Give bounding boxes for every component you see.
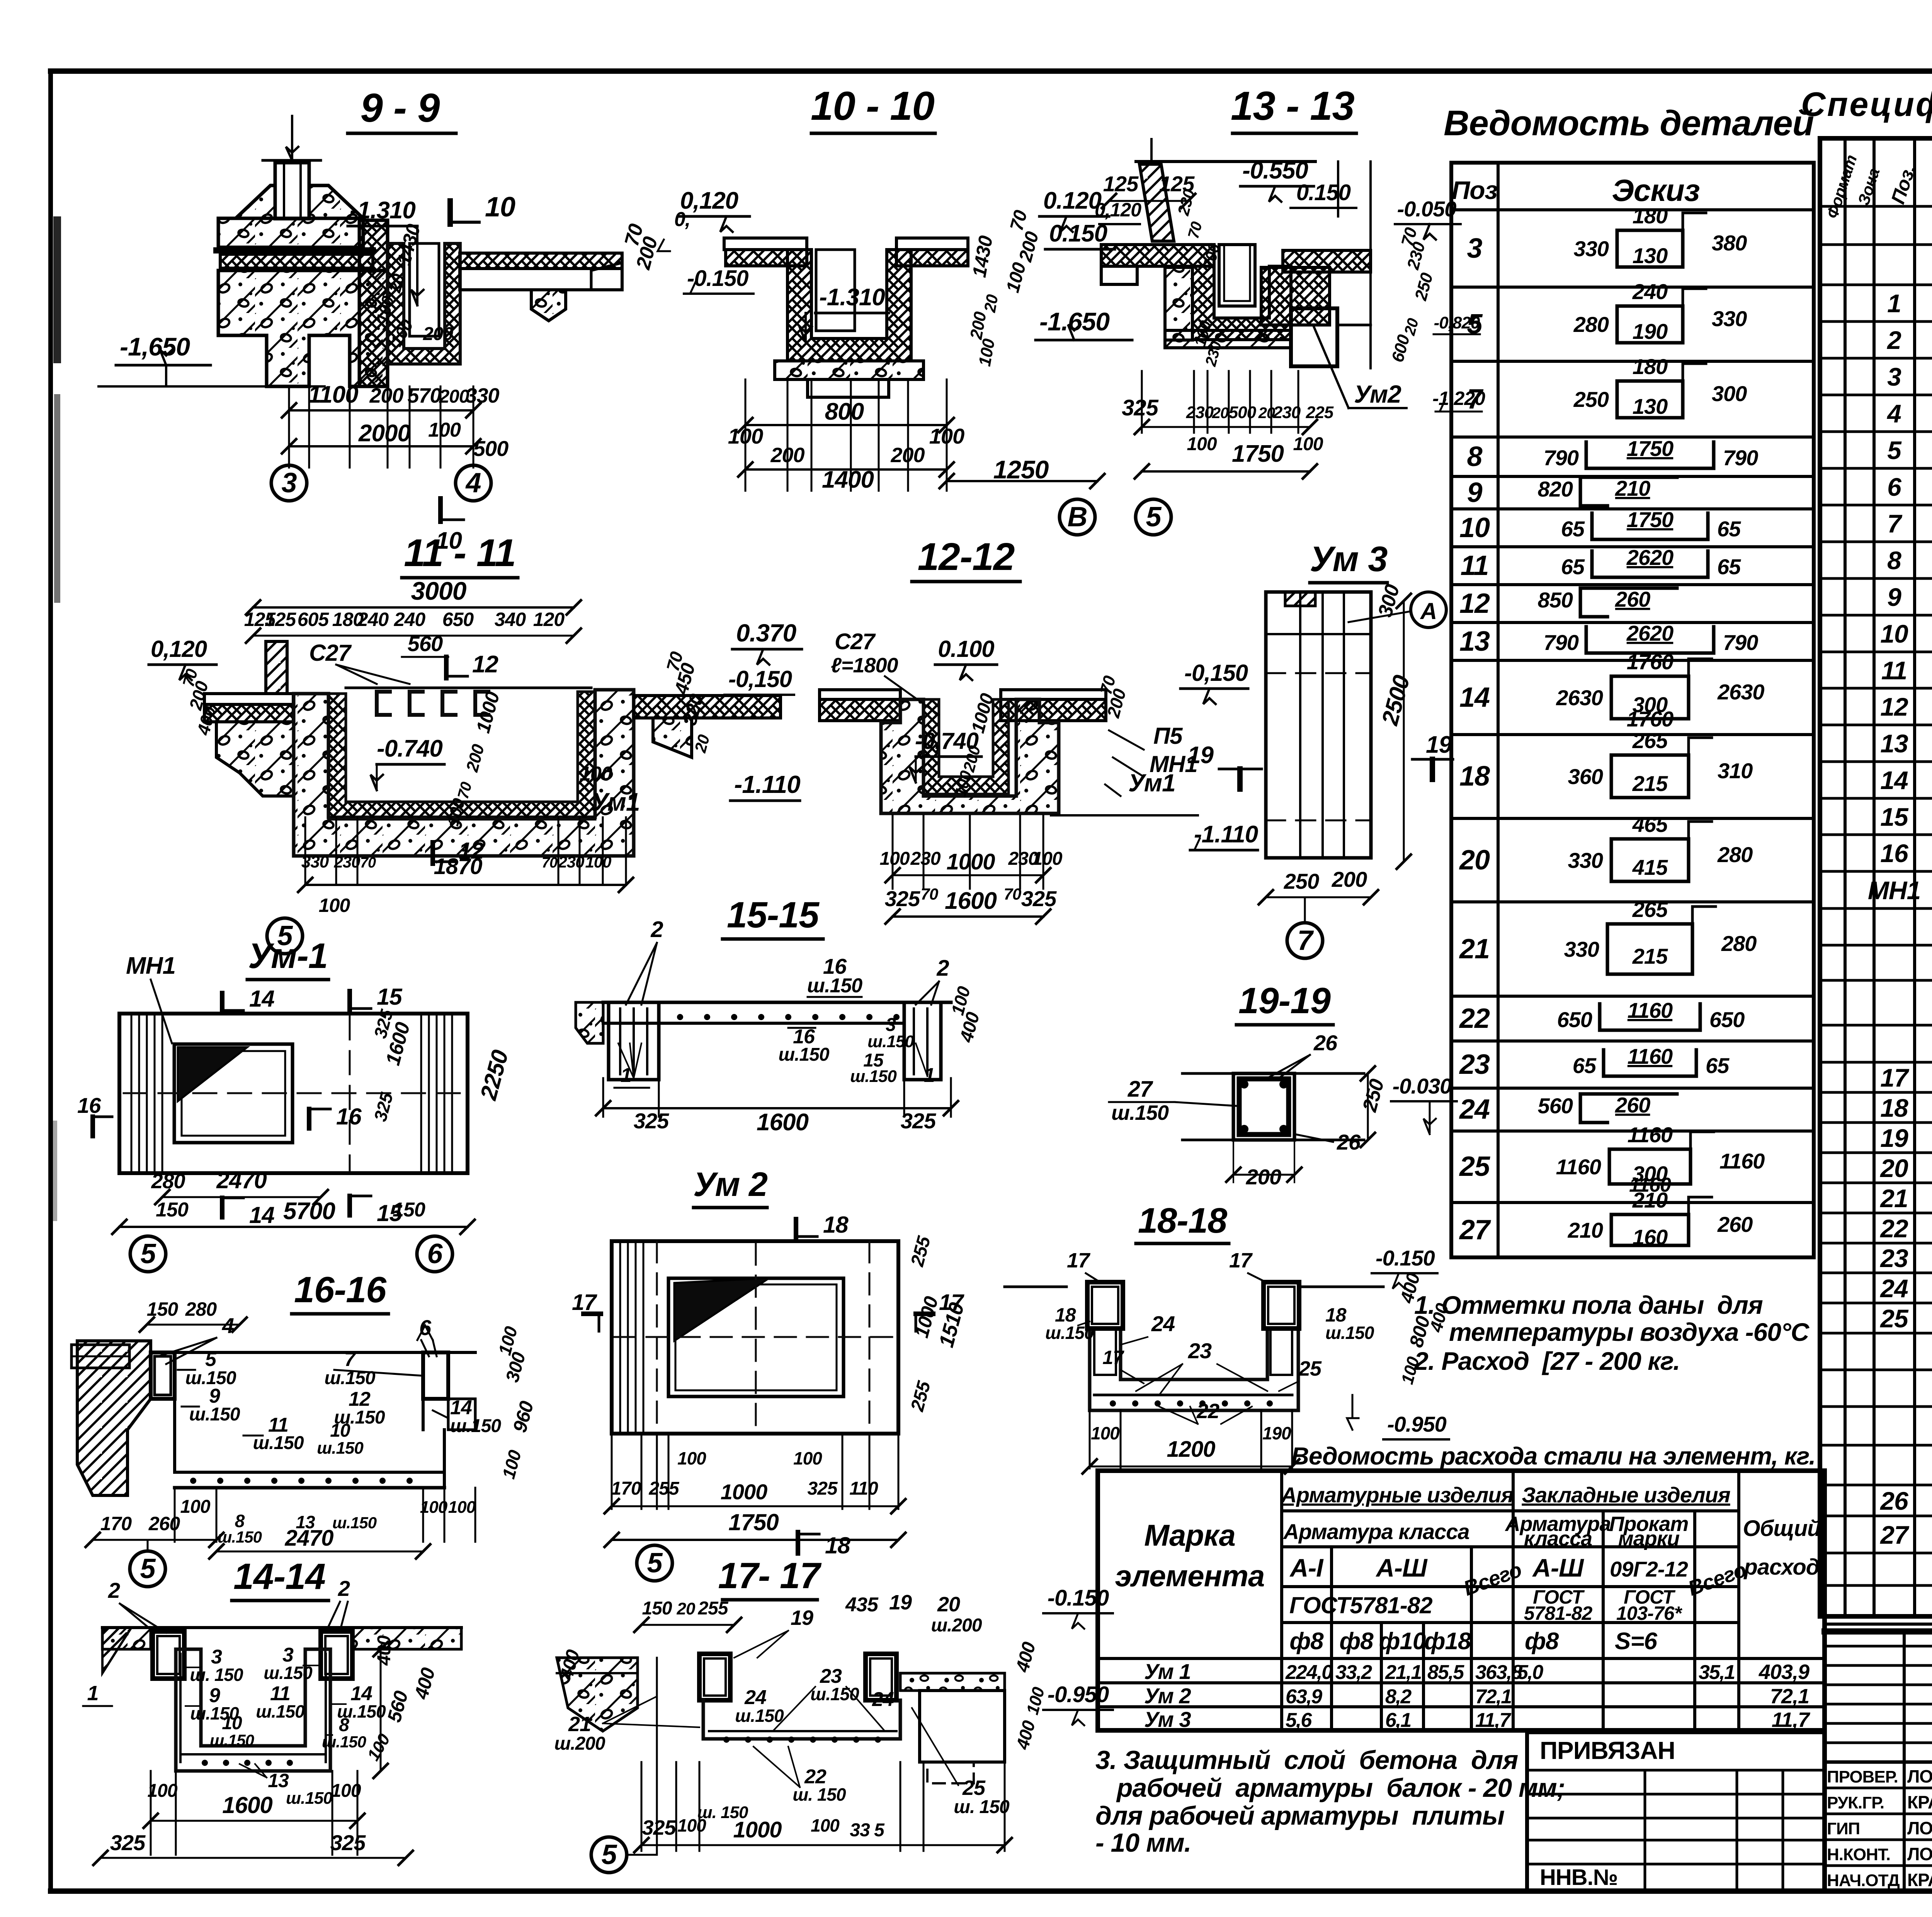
svg-text:-0,150: -0,150 xyxy=(1184,660,1248,686)
svg-text:4: 4 xyxy=(1886,399,1901,428)
svg-text:0.120: 0.120 xyxy=(1043,187,1102,214)
svg-text:650: 650 xyxy=(1557,1007,1592,1032)
11-11 left block xyxy=(216,722,294,796)
svg-text:6: 6 xyxy=(1887,473,1902,501)
svg-text:325: 325 xyxy=(110,1830,146,1855)
svg-text:850: 850 xyxy=(1538,588,1573,612)
svg-text:4: 4 xyxy=(465,468,481,498)
svg-text:2: 2 xyxy=(338,1576,350,1601)
svg-text:3: 3 xyxy=(1467,233,1482,264)
axis 16-16 xyxy=(130,1551,165,1587)
11-11 left slab xyxy=(204,694,293,704)
svg-text:325: 325 xyxy=(901,1109,936,1133)
svg-text:170: 170 xyxy=(611,1478,641,1499)
svg-text:415: 415 xyxy=(1632,855,1668,879)
svg-text:Формат: Формат xyxy=(1823,153,1860,221)
svg-text:-0.050: -0.050 xyxy=(1397,197,1457,221)
12-12 slabs xyxy=(820,690,900,699)
privyazan box xyxy=(1527,1732,1825,1890)
svg-text:7: 7 xyxy=(1887,509,1903,538)
sketch row 18 xyxy=(1611,755,1689,798)
svg-text:16: 16 xyxy=(77,1093,101,1118)
svg-text:200: 200 xyxy=(423,324,453,344)
svg-text:Марка: Марка xyxy=(1144,1518,1235,1552)
svg-text:14: 14 xyxy=(1880,766,1908,794)
svg-text:100: 100 xyxy=(448,1498,476,1517)
svg-text:100: 100 xyxy=(428,419,461,441)
svg-text:1. Отметки пола даны для: 1. Отметки пола даны для xyxy=(1414,1291,1763,1319)
svg-text:200: 200 xyxy=(369,384,403,407)
sketch row 12 xyxy=(1580,588,1607,617)
11-11 bottom dims xyxy=(304,817,306,885)
svg-text:12: 12 xyxy=(472,651,498,678)
svg-text:100: 100 xyxy=(580,763,612,785)
svg-text:22: 22 xyxy=(1459,1003,1490,1034)
svg-text:-0.950: -0.950 xyxy=(1387,1412,1447,1436)
svg-text:260: 260 xyxy=(1615,1093,1650,1117)
svg-text:14-14: 14-14 xyxy=(233,1556,325,1597)
svg-text:13: 13 xyxy=(1880,729,1908,758)
svg-text:1100: 1100 xyxy=(308,381,358,408)
lower block 9-9 xyxy=(218,270,388,386)
svg-text:70: 70 xyxy=(360,855,376,871)
svg-text:1750: 1750 xyxy=(728,1509,779,1535)
sketch row 11 xyxy=(1592,551,1609,577)
svg-text:Закладные изделия: Закладные изделия xyxy=(1522,1483,1730,1507)
svg-text:65: 65 xyxy=(1561,517,1585,541)
svg-text:15: 15 xyxy=(377,984,403,1010)
axis circles 9-9 xyxy=(271,465,307,501)
svg-text:12: 12 xyxy=(1880,692,1908,721)
svg-text:Ум 2: Ум 2 xyxy=(693,1165,768,1203)
U pocket 9-9 xyxy=(388,243,460,364)
svg-text:-0.030: -0.030 xyxy=(1393,1074,1452,1098)
16-16 left block xyxy=(77,1341,151,1495)
svg-text:110: 110 xyxy=(849,1478,878,1499)
svg-text:790: 790 xyxy=(1544,630,1579,655)
svg-text:85,5: 85,5 xyxy=(1427,1661,1464,1684)
svg-text:20: 20 xyxy=(691,733,713,755)
svg-text:Ум2: Ум2 xyxy=(1354,380,1401,408)
svg-text:100: 100 xyxy=(180,1497,210,1517)
svg-text:325: 325 xyxy=(634,1109,669,1133)
Um3 body xyxy=(1266,592,1371,858)
svg-text:6: 6 xyxy=(427,1238,443,1269)
svg-text:ш.150: ш.150 xyxy=(1325,1323,1374,1343)
Um-1 wedge xyxy=(178,1047,247,1101)
svg-text:ℓ=1800: ℓ=1800 xyxy=(831,654,898,677)
svg-text:200: 200 xyxy=(1015,229,1043,264)
svg-text:3000: 3000 xyxy=(411,577,467,605)
10-10 left slab xyxy=(724,238,807,250)
17-17 U xyxy=(699,1654,730,1700)
svg-text:1760: 1760 xyxy=(1627,707,1673,731)
svg-text:240: 240 xyxy=(357,609,389,630)
svg-text:18: 18 xyxy=(1459,761,1490,792)
svg-text:600: 600 xyxy=(1388,332,1413,364)
svg-text:100: 100 xyxy=(331,1781,361,1801)
svg-text:А-I: А-I xyxy=(1289,1553,1324,1582)
svg-text:1160: 1160 xyxy=(1628,1123,1673,1147)
sketch row 13 xyxy=(1586,627,1603,653)
svg-text:А-Ш: А-Ш xyxy=(1375,1553,1428,1582)
svg-text:200: 200 xyxy=(463,742,488,774)
svg-text:1600: 1600 xyxy=(222,1792,272,1818)
Um2 sec 17 marks xyxy=(583,1311,601,1316)
svg-text:100: 100 xyxy=(793,1448,822,1468)
svg-text:25: 25 xyxy=(962,1776,986,1800)
svg-text:325: 325 xyxy=(885,886,920,911)
sketch row 21 xyxy=(1607,924,1692,974)
svg-text:ш.150: ш.150 xyxy=(317,1439,364,1458)
crosshatch band 9-9 xyxy=(220,254,373,268)
sketch row 24 xyxy=(1580,1094,1607,1123)
svg-text:0,120: 0,120 xyxy=(1095,199,1141,221)
svg-text:2630: 2630 xyxy=(1717,680,1764,704)
svg-text:09Г2-12: 09Г2-12 xyxy=(1610,1557,1688,1581)
svg-text:2620: 2620 xyxy=(1626,545,1673,570)
svg-text:70: 70 xyxy=(921,885,938,903)
svg-text:250: 250 xyxy=(1284,869,1319,893)
svg-text:ш.150: ш.150 xyxy=(1045,1323,1094,1343)
svg-text:210: 210 xyxy=(1632,1188,1668,1212)
svg-text:5,0: 5,0 xyxy=(1517,1661,1543,1684)
svg-text:20: 20 xyxy=(1879,1154,1908,1182)
sketch row 3 xyxy=(1617,230,1683,267)
svg-text:14: 14 xyxy=(249,1202,274,1228)
svg-text:МН1: МН1 xyxy=(126,953,175,979)
11-11 C27 channels xyxy=(377,692,390,715)
svg-text:1250: 1250 xyxy=(993,455,1049,484)
svg-text:24: 24 xyxy=(872,1688,894,1711)
svg-text:ш.200: ш.200 xyxy=(931,1615,982,1636)
svg-text:Ум1: Ум1 xyxy=(591,788,640,816)
svg-text:17: 17 xyxy=(1102,1347,1124,1368)
13-13 right block xh xyxy=(1261,267,1330,325)
svg-text:63,9: 63,9 xyxy=(1286,1686,1322,1708)
svg-text:100: 100 xyxy=(1398,1354,1423,1386)
svg-text:70: 70 xyxy=(542,855,558,871)
svg-text:10: 10 xyxy=(485,192,515,223)
svg-text:200: 200 xyxy=(1246,1165,1281,1189)
svg-text:26: 26 xyxy=(1879,1487,1909,1515)
svg-text:255: 255 xyxy=(697,1598,728,1619)
svg-text:265: 265 xyxy=(1632,728,1668,753)
Um3 sec 19 xyxy=(1237,769,1243,789)
svg-text:17: 17 xyxy=(1067,1249,1091,1272)
svg-text:13: 13 xyxy=(268,1770,289,1791)
svg-text:6,1: 6,1 xyxy=(1385,1709,1411,1732)
svg-text:5: 5 xyxy=(1146,502,1162,532)
svg-text:650: 650 xyxy=(1709,1007,1745,1032)
svg-text:560: 560 xyxy=(408,631,443,656)
svg-text:8: 8 xyxy=(1887,546,1901,575)
svg-text:ш.150: ш.150 xyxy=(256,1701,305,1721)
svg-text:2470: 2470 xyxy=(284,1526,333,1551)
sketch row 23 xyxy=(1604,1050,1621,1076)
svg-text:2: 2 xyxy=(108,1578,120,1602)
svg-text:200: 200 xyxy=(439,386,469,407)
10-10 bottom band xyxy=(775,361,923,379)
svg-text:19: 19 xyxy=(889,1591,912,1614)
svg-text:240: 240 xyxy=(394,609,426,630)
svg-text:11 - 11: 11 - 11 xyxy=(404,531,515,575)
Um2 sec 18 top xyxy=(794,1219,798,1238)
svg-text:2250: 2250 xyxy=(475,1047,514,1103)
upper block concrete xyxy=(218,218,363,247)
svg-text:100: 100 xyxy=(147,1781,177,1801)
svg-text:8: 8 xyxy=(1467,441,1482,472)
svg-text:Общий: Общий xyxy=(1743,1516,1821,1541)
svg-text:12: 12 xyxy=(459,838,484,864)
svg-text:Арматура класса: Арматура класса xyxy=(1282,1519,1469,1544)
14-14 rebar dots xyxy=(202,1760,208,1766)
title block top double line xyxy=(1825,1623,1932,1626)
svg-text:2000: 2000 xyxy=(358,420,410,447)
svg-text:190: 190 xyxy=(1633,319,1668,344)
svg-text:9: 9 xyxy=(1467,477,1482,508)
svg-text:17: 17 xyxy=(572,1290,597,1315)
15-15 beam xyxy=(576,1002,603,1043)
svg-text:3: 3 xyxy=(281,468,297,498)
svg-text:100: 100 xyxy=(975,337,999,367)
svg-text:1160: 1160 xyxy=(1719,1149,1765,1173)
svg-text:5: 5 xyxy=(874,1820,885,1840)
svg-text:Эскиз: Эскиз xyxy=(1612,173,1699,208)
svg-text:325: 325 xyxy=(370,1090,397,1124)
13-13 left slab xyxy=(1101,245,1214,266)
svg-text:1: 1 xyxy=(87,1682,98,1705)
svg-text:20: 20 xyxy=(677,1599,696,1618)
svg-text:35,1: 35,1 xyxy=(1699,1661,1735,1684)
Um-1 left band xyxy=(131,1014,133,1173)
svg-text:130: 130 xyxy=(1633,243,1668,268)
Um2 inner xyxy=(668,1278,844,1397)
svg-text:11: 11 xyxy=(1461,550,1489,581)
svg-text:-0.150: -0.150 xyxy=(1376,1246,1435,1270)
11-11 right slab xyxy=(634,696,781,718)
svg-text:15: 15 xyxy=(1880,803,1909,831)
svg-text:-0.150: -0.150 xyxy=(1048,1585,1109,1611)
svg-text:100: 100 xyxy=(1091,1423,1120,1443)
svg-text:-1.310: -1.310 xyxy=(350,197,415,224)
svg-text:170: 170 xyxy=(100,1513,132,1534)
svg-text:8,2: 8,2 xyxy=(1385,1686,1412,1708)
svg-text:0.100: 0.100 xyxy=(938,636,994,662)
svg-text:72,1: 72,1 xyxy=(1770,1685,1809,1708)
Um-1 right band xyxy=(420,1014,422,1173)
svg-text:22: 22 xyxy=(1196,1400,1219,1423)
svg-text:255: 255 xyxy=(907,1233,935,1269)
svg-text:Ум1: Ум1 xyxy=(1128,769,1175,797)
svg-text:260: 260 xyxy=(1615,587,1650,611)
svg-text:560: 560 xyxy=(1538,1094,1573,1118)
svg-text:7: 7 xyxy=(344,1348,356,1371)
svg-text:ПРИВЯЗАН: ПРИВЯЗАН xyxy=(1540,1737,1675,1764)
svg-text:465: 465 xyxy=(1632,812,1668,837)
Um-1 axes xyxy=(130,1236,166,1272)
svg-text:14: 14 xyxy=(1459,682,1490,713)
Um3 A circle xyxy=(1411,592,1446,628)
svg-text:ННВ.№: ННВ.№ xyxy=(1540,1865,1617,1890)
svg-text:-0,820: -0,820 xyxy=(1434,313,1480,332)
svg-text:1430: 1430 xyxy=(968,234,997,279)
14-14 U xyxy=(176,1649,330,1771)
svg-text:330: 330 xyxy=(465,384,499,407)
svg-text:15-15: 15-15 xyxy=(727,895,820,936)
svg-text:150: 150 xyxy=(156,1199,189,1221)
svg-text:130: 130 xyxy=(1633,394,1668,418)
18-18 rebar dots xyxy=(1110,1400,1116,1407)
svg-text:20: 20 xyxy=(1258,405,1275,422)
svg-text:100: 100 xyxy=(1002,260,1030,294)
11-11 left pillar xyxy=(266,641,287,694)
svg-text:рабочей арматуры балок - 20: рабочей арматуры балок - 20 мм; xyxy=(1116,1773,1565,1803)
svg-text:В: В xyxy=(1068,502,1087,532)
11-11 basin xyxy=(294,690,634,856)
svg-text:РУК.ГР.: РУК.ГР. xyxy=(1827,1793,1884,1812)
svg-text:65: 65 xyxy=(1717,517,1741,541)
svg-text:17: 17 xyxy=(1229,1249,1253,1272)
svg-text:325: 325 xyxy=(1122,395,1159,420)
Um2 sec 18 bottom xyxy=(796,1532,800,1553)
svg-text:330: 330 xyxy=(1574,236,1609,261)
svg-text:70: 70 xyxy=(1004,885,1021,903)
svg-text:325: 325 xyxy=(330,1830,366,1855)
svg-text:210: 210 xyxy=(1615,476,1650,500)
svg-text:-0.950: -0.950 xyxy=(1048,1682,1109,1707)
svg-text:2: 2 xyxy=(1886,326,1901,354)
svg-text:КРАСНОВА: КРАСНОВА xyxy=(1907,1792,1932,1812)
svg-text:100: 100 xyxy=(1293,434,1323,454)
svg-text:100: 100 xyxy=(879,849,910,869)
12-12 bottom dims xyxy=(892,815,894,889)
svg-text:380: 380 xyxy=(1712,231,1747,255)
svg-text:23: 23 xyxy=(1879,1244,1908,1272)
svg-text:100: 100 xyxy=(585,853,611,871)
svg-text:-1.220: -1.220 xyxy=(1432,388,1485,409)
svg-text:27: 27 xyxy=(1879,1521,1910,1549)
svg-text:22: 22 xyxy=(1879,1214,1908,1243)
svg-text:С27: С27 xyxy=(309,640,352,666)
svg-text:7: 7 xyxy=(1297,925,1314,956)
svg-text:100: 100 xyxy=(420,1498,448,1517)
svg-text:ЛОУЦКЕР: ЛОУЦКЕР xyxy=(1907,1818,1932,1838)
svg-text:19: 19 xyxy=(1426,731,1452,758)
svg-text:Поз: Поз xyxy=(1452,176,1498,204)
svg-text:КРАСАВИН: КРАСАВИН xyxy=(1907,1870,1932,1890)
svg-text:150: 150 xyxy=(393,1199,425,1221)
10-10 channel xyxy=(787,250,911,361)
svg-text:200: 200 xyxy=(770,444,804,467)
17-17 bottom dims xyxy=(641,1762,643,1851)
svg-text:0.150: 0.150 xyxy=(1296,180,1351,205)
svg-text:2500: 2500 xyxy=(1377,672,1415,728)
svg-text:325: 325 xyxy=(642,1816,676,1839)
19-19 column xyxy=(1182,1072,1364,1075)
svg-text:11,7: 11,7 xyxy=(1475,1709,1511,1732)
svg-text:18-18: 18-18 xyxy=(1138,1201,1228,1240)
svg-text:9 - 9: 9 - 9 xyxy=(360,85,440,131)
svg-text:330: 330 xyxy=(301,852,329,871)
svg-text:280: 280 xyxy=(185,1298,217,1320)
svg-text:65: 65 xyxy=(1561,555,1585,579)
svg-text:230: 230 xyxy=(910,849,940,869)
section 9-9 body xyxy=(236,163,363,218)
svg-text:65: 65 xyxy=(1573,1053,1597,1078)
svg-text:1200: 1200 xyxy=(1167,1437,1215,1462)
svg-text:280: 280 xyxy=(151,1170,185,1193)
svg-text:5700: 5700 xyxy=(283,1198,335,1225)
Um-1 dashes xyxy=(124,1092,464,1094)
svg-text:24: 24 xyxy=(1459,1094,1490,1125)
svg-text:100: 100 xyxy=(1023,1685,1048,1716)
svg-text:5: 5 xyxy=(647,1548,663,1579)
svg-text:21: 21 xyxy=(1459,934,1490,964)
18-18 stirrup boxes xyxy=(1087,1282,1123,1328)
svg-text:ГОСТ5781-82: ГОСТ5781-82 xyxy=(1289,1592,1432,1618)
svg-text:-0,150: -0,150 xyxy=(728,666,792,692)
svg-text:570: 570 xyxy=(407,384,441,407)
Um2 outer xyxy=(612,1241,898,1434)
svg-text:ш.150: ш.150 xyxy=(332,1514,377,1532)
svg-text:ш. 150: ш. 150 xyxy=(697,1803,749,1822)
svg-text:215: 215 xyxy=(1632,944,1668,968)
svg-text:ЛОУЦКЕР: ЛОУЦКЕР xyxy=(1907,1766,1932,1786)
svg-text:элемента: элемента xyxy=(1115,1559,1265,1593)
svg-text:1: 1 xyxy=(1887,289,1901,318)
svg-text:5: 5 xyxy=(601,1839,617,1870)
15-15 dims xyxy=(602,1078,604,1117)
svg-text:403,9: 403,9 xyxy=(1759,1660,1810,1684)
axis Um2 xyxy=(637,1545,672,1581)
svg-text:33,2: 33,2 xyxy=(1335,1661,1372,1684)
svg-text:0.370: 0.370 xyxy=(736,619,796,647)
svg-text:ф8: ф8 xyxy=(1525,1628,1559,1655)
svg-text:260: 260 xyxy=(1717,1212,1753,1237)
svg-text:103-76*: 103-76* xyxy=(1616,1602,1683,1624)
svg-text:24: 24 xyxy=(1879,1274,1908,1303)
svg-text:ш.150: ш.150 xyxy=(778,1044,829,1065)
svg-text:100: 100 xyxy=(1187,434,1217,454)
svg-text:330: 330 xyxy=(1568,848,1603,873)
svg-text:100: 100 xyxy=(1032,849,1062,869)
Um2 wedge xyxy=(674,1278,769,1341)
sketch row 14 xyxy=(1611,676,1689,719)
bottom dims 9-9 xyxy=(288,386,290,468)
svg-text:280: 280 xyxy=(1573,312,1609,337)
svg-text:9: 9 xyxy=(1887,583,1901,611)
details table grid xyxy=(1451,163,1814,1257)
svg-text:5: 5 xyxy=(205,1348,217,1371)
svg-text:435: 435 xyxy=(845,1594,879,1616)
14-14 bottom dims xyxy=(150,1771,152,1855)
svg-text:ш.150: ш.150 xyxy=(1111,1101,1169,1124)
svg-text:5: 5 xyxy=(140,1553,156,1584)
svg-text:20: 20 xyxy=(1212,405,1229,422)
svg-text:10 - 10: 10 - 10 xyxy=(811,83,934,129)
svg-text:Ум 1: Ум 1 xyxy=(1144,1659,1191,1684)
svg-text:20: 20 xyxy=(1459,845,1490,876)
svg-text:1000: 1000 xyxy=(946,849,995,874)
svg-text:100: 100 xyxy=(811,1815,840,1835)
svg-text:1750: 1750 xyxy=(1627,436,1673,461)
svg-text:16-16: 16-16 xyxy=(294,1269,387,1310)
sketch row 7 xyxy=(1617,381,1683,418)
14-14 stirrup boxes xyxy=(153,1631,184,1679)
axis 7 xyxy=(1287,923,1323,958)
svg-text:100: 100 xyxy=(929,424,964,448)
